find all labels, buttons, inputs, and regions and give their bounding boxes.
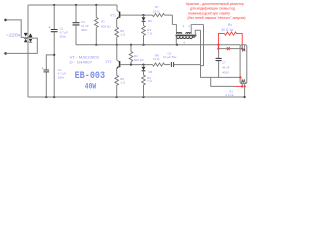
svg-text:2: 2: [183, 24, 185, 28]
svg-text:D6: D6: [149, 70, 153, 74]
resistor R4: [142, 71, 153, 97]
wire: VT2 base line: [120, 64, 152, 66]
svg-text:~220v: ~220v: [6, 33, 21, 38]
transistor VT1: [110, 5, 120, 19]
svg-text:250v: 250v: [60, 35, 67, 39]
svg-text:для модификации схемы под: для модификации схемы под: [190, 7, 235, 11]
type note text: [70, 55, 100, 65]
wire: terminal1 to bridge left: [6, 20, 25, 38]
wire: cut wire to lamp top filament: [219, 48, 243, 50]
red dot at lamp left wall / C7 line: [239, 76, 241, 78]
svg-text:+: +: [49, 26, 51, 30]
resistor R7: [153, 5, 173, 17]
red X cut mark: [227, 47, 230, 50]
wire: main winding right down to C5 node and lamp bottom: [201, 30, 241, 77]
capacitor C7: [216, 45, 230, 78]
svg-text:30 Ω 1w: 30 Ω 1w: [222, 28, 234, 32]
resistor R2: [129, 45, 144, 65]
resistor Rx (red, added): [217, 23, 243, 50]
transformer T1 core: [176, 34, 197, 36]
diode D5: [142, 15, 153, 23]
wire: bridge - down to bottom rail: [27, 43, 29, 97]
svg-text:VT1: VT1: [110, 14, 116, 18]
wire: winding2 down to base network: [201, 25, 204, 66]
svg-text:EB-003: EB-003: [75, 70, 106, 81]
bridge rectifier VD1-VD4: [24, 32, 32, 44]
node: mid rail junctions: [95, 44, 97, 46]
wire: bottom rail: [28, 96, 245, 98]
svg-text:1 Ω: 1 Ω: [120, 33, 126, 37]
svg-text:7 Ω: 7 Ω: [147, 31, 153, 35]
svg-text:44 nF: 44 nF: [222, 66, 230, 70]
svg-text:10 µF 50v: 10 µF 50v: [163, 55, 177, 59]
wire: VT1 base line: [120, 14, 152, 16]
transformer T1 feedback winding 2 (2 turns): [186, 24, 204, 34]
capacitor C2 (electrolytic, on left branch): [42, 54, 67, 97]
transformer T1 feedback winding 1 (2 turns): [172, 24, 184, 34]
wire: terminal2 to bridge right: [6, 38, 38, 53]
wire: top rail: [28, 4, 117, 6]
resistor R5 (VT1 emitter): [115, 19, 126, 45]
svg-text:600 kΩ: 600 kΩ: [134, 58, 144, 62]
capacitor C5: [163, 51, 201, 67]
wire: jog to lamp bottom pins: [211, 77, 236, 86]
wire: mid rail: [76, 44, 240, 46]
svg-text:люминесцентную лампу: люминесцентную лампу: [188, 11, 230, 15]
svg-text:(без нитей накала "тёплого" за: (без нитей накала "тёплого" запуска): [187, 16, 245, 20]
wire: R7 to transformer winding 1: [171, 15, 173, 25]
resistor R6 (VT2 emitter): [115, 68, 126, 97]
svg-text:6: 6: [184, 41, 186, 45]
capacitor C3: [73, 5, 89, 45]
svg-text:40W: 40W: [85, 84, 97, 92]
diode D6: [142, 65, 153, 75]
svg-text:VT2: VT2: [106, 60, 112, 64]
resistor R1: [95, 5, 112, 45]
svg-text:2.5 кв: 2.5 кв: [226, 93, 234, 97]
svg-text:Rx: Rx: [228, 23, 232, 27]
wire: bridge + up to top rail: [27, 5, 29, 32]
svg-text:250v: 250v: [58, 75, 65, 79]
svg-text:10 Ω: 10 Ω: [153, 57, 160, 61]
capacitor C1 (electrolytic): [49, 5, 69, 97]
red annotation text: [186, 2, 245, 20]
node: bottom rail junctions: [53, 96, 55, 98]
transformer T1 main winding: [176, 30, 200, 45]
resistor R8: [153, 53, 171, 66]
svg-text:+: +: [42, 66, 44, 70]
svg-text:600 kΩ: 600 kΩ: [101, 24, 111, 28]
AC input terminal 1: [4, 19, 7, 22]
svg-text:1 Ω: 1 Ω: [120, 81, 126, 85]
svg-text:R1: R1: [101, 20, 105, 24]
svg-text:Красное - дополнительный резис: Красное - дополнительный резистор: [186, 2, 244, 6]
lamp EL1 tube: [226, 45, 247, 97]
svg-text:2: 2: [188, 24, 190, 28]
svg-text:C7: C7: [222, 61, 226, 65]
node: lamp pin to bottom rail junction: [244, 96, 246, 98]
AC input terminal 2: [4, 52, 7, 55]
svg-text:10 Ω: 10 Ω: [153, 9, 160, 13]
node: top rail junctions: [53, 4, 55, 6]
resistor R3: [142, 22, 153, 45]
svg-text:7 Ω: 7 Ω: [147, 79, 153, 83]
svg-text:400V: 400V: [222, 71, 229, 75]
svg-text:D - 1N4007: D - 1N4007: [70, 59, 93, 64]
svg-text:D5: D5: [148, 19, 152, 23]
svg-text:400v: 400v: [81, 28, 88, 32]
transistor VT2: [106, 45, 120, 69]
red jumper at lamp bottom: [235, 85, 245, 87]
